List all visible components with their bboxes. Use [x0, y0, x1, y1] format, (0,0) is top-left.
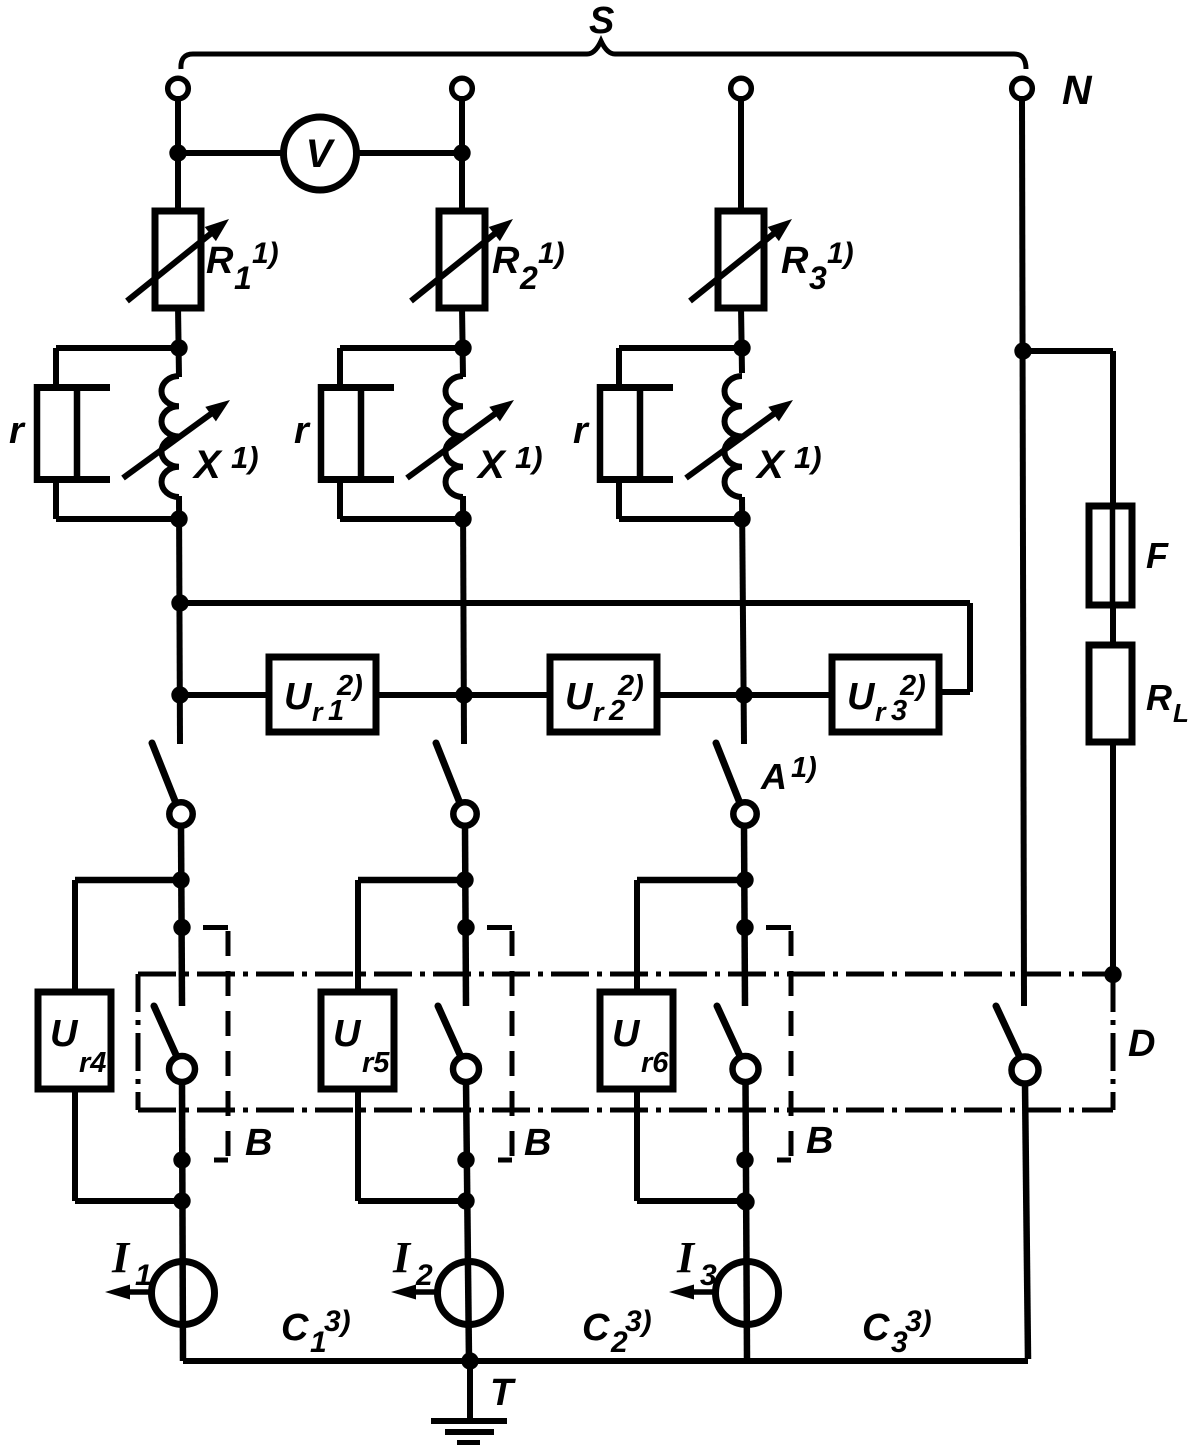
svg-text:1): 1): [794, 440, 822, 475]
svg-text:2): 2): [617, 670, 644, 702]
svg-text:I: I: [111, 1233, 131, 1282]
svg-text:C: C: [582, 1307, 610, 1349]
svg-text:3): 3): [625, 1305, 652, 1338]
svg-text:U: U: [565, 676, 594, 718]
svg-text:L: L: [1173, 698, 1189, 728]
svg-text:I: I: [392, 1233, 412, 1282]
svg-text:1): 1): [231, 440, 259, 475]
svg-text:r: r: [875, 697, 887, 727]
svg-text:I: I: [676, 1233, 696, 1282]
svg-text:2: 2: [519, 260, 538, 296]
svg-text:r: r: [294, 410, 311, 452]
svg-text:B: B: [806, 1120, 833, 1162]
svg-text:1: 1: [135, 1259, 152, 1292]
svg-text:1): 1): [515, 440, 543, 475]
svg-text:U: U: [50, 1013, 79, 1055]
svg-text:R: R: [781, 240, 809, 282]
svg-text:X: X: [192, 443, 223, 487]
svg-text:X: X: [755, 443, 786, 487]
svg-text:X: X: [476, 443, 507, 487]
svg-text:1): 1): [538, 237, 565, 270]
svg-text:F: F: [1146, 535, 1169, 576]
svg-text:S: S: [589, 0, 614, 42]
svg-text:r: r: [9, 410, 26, 452]
svg-text:U: U: [284, 676, 313, 718]
svg-text:2: 2: [415, 1259, 433, 1292]
svg-text:r4: r4: [79, 1047, 106, 1079]
svg-text:r: r: [573, 410, 590, 452]
svg-text:U: U: [333, 1013, 362, 1055]
svg-text:2): 2): [899, 670, 926, 702]
svg-text:R: R: [492, 240, 520, 282]
svg-text:A: A: [760, 756, 787, 797]
svg-text:1): 1): [791, 752, 817, 784]
svg-text:D: D: [1128, 1023, 1155, 1065]
svg-text:V: V: [306, 132, 336, 176]
svg-text:r5: r5: [362, 1047, 390, 1079]
svg-text:C: C: [281, 1307, 309, 1349]
svg-text:1: 1: [234, 260, 252, 296]
svg-text:3: 3: [700, 1259, 717, 1292]
svg-text:2): 2): [336, 670, 363, 702]
svg-text:U: U: [612, 1013, 641, 1055]
svg-text:3): 3): [905, 1305, 932, 1338]
svg-text:3: 3: [809, 260, 827, 296]
svg-text:B: B: [245, 1122, 272, 1164]
svg-text:1): 1): [827, 237, 854, 270]
svg-text:C: C: [862, 1307, 890, 1349]
svg-text:T: T: [490, 1372, 516, 1414]
svg-text:U: U: [847, 676, 876, 718]
svg-text:r: r: [593, 697, 605, 727]
svg-text:N: N: [1062, 67, 1093, 113]
svg-text:B: B: [524, 1122, 551, 1164]
svg-text:3): 3): [324, 1305, 351, 1338]
svg-text:r6: r6: [641, 1047, 669, 1079]
svg-text:1): 1): [252, 237, 279, 270]
svg-text:r: r: [312, 697, 324, 727]
svg-text:R: R: [206, 240, 234, 282]
svg-text:R: R: [1146, 677, 1172, 718]
